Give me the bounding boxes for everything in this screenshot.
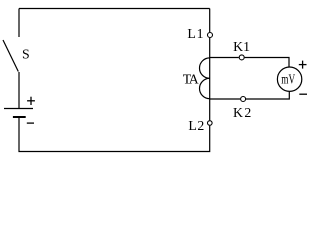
svg-text:TA: TA [183,72,199,87]
svg-text:K1: K1 [233,39,250,54]
svg-text:mV: mV [281,71,295,86]
svg-text:L2: L2 [188,118,204,133]
svg-text:L1: L1 [187,26,204,41]
svg-text:K2: K2 [233,105,253,120]
svg-text:S: S [22,47,30,62]
